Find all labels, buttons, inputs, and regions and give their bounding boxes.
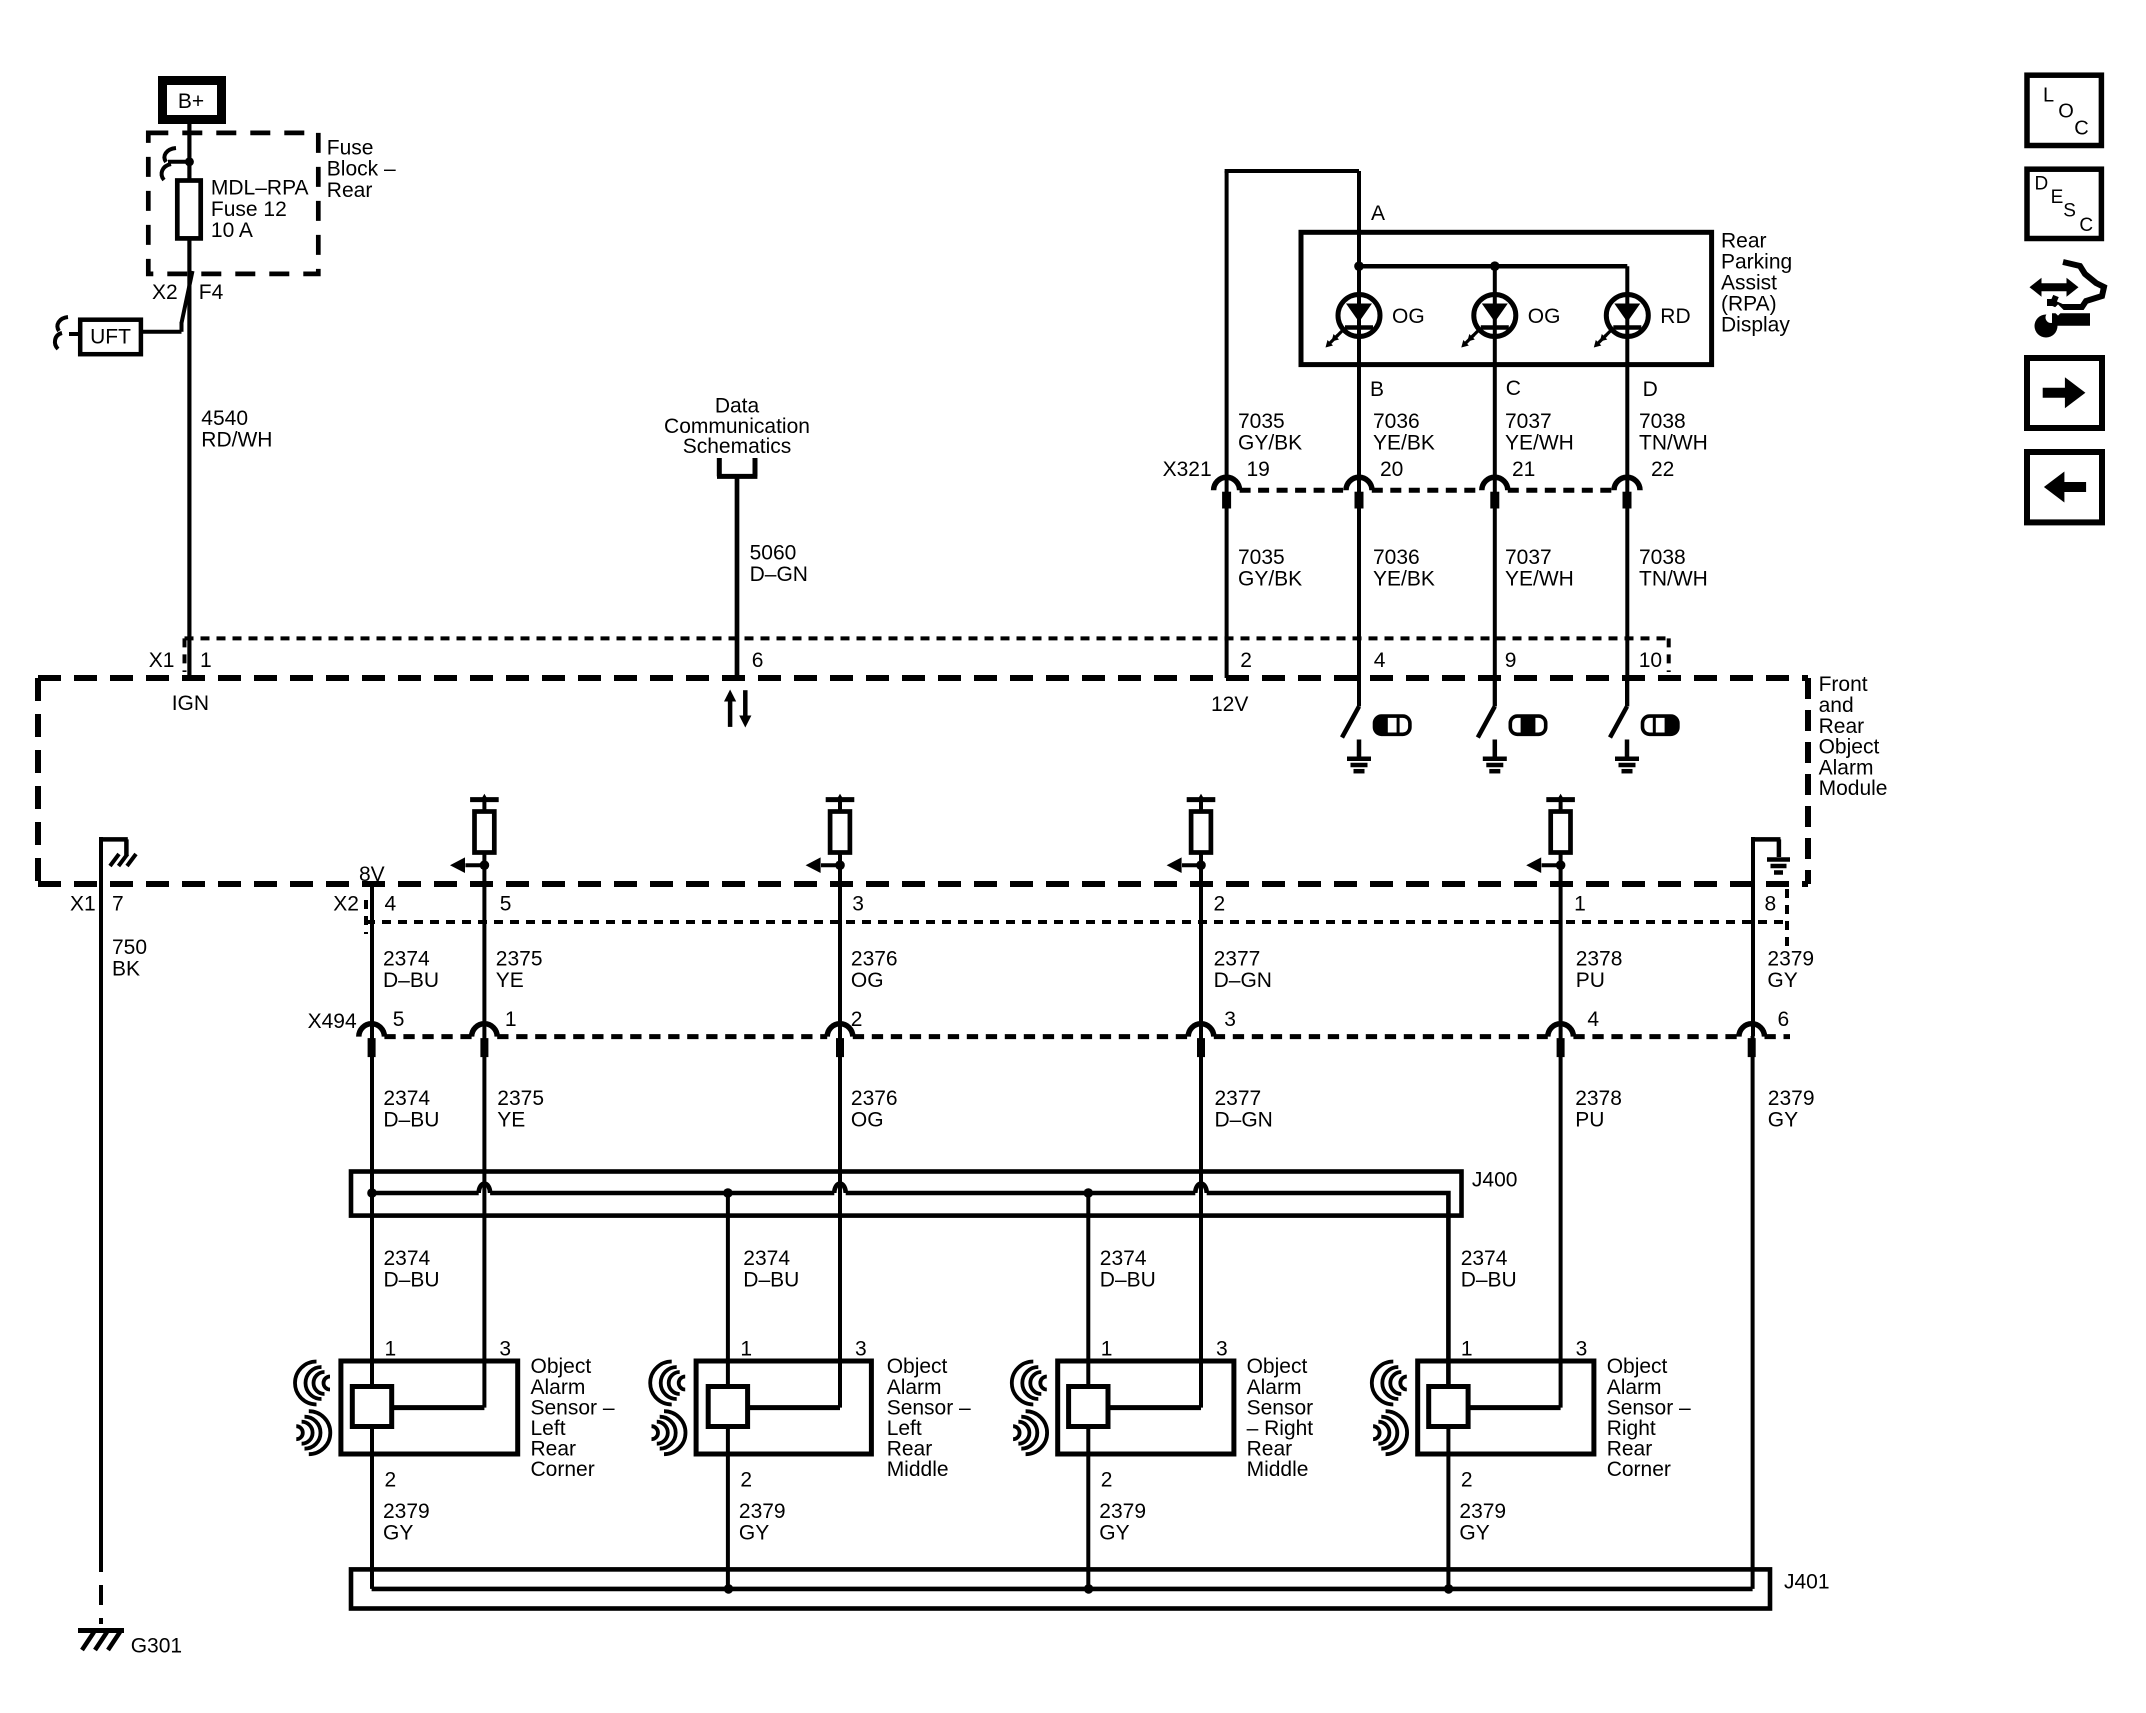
svg-text:C: C bbox=[2074, 117, 2088, 139]
svg-text:B: B bbox=[1370, 378, 1384, 401]
svg-text:X321: X321 bbox=[1163, 458, 1212, 481]
svg-text:D: D bbox=[1643, 378, 1658, 401]
svg-text:6: 6 bbox=[752, 649, 764, 672]
svg-text:J400: J400 bbox=[1472, 1169, 1518, 1192]
svg-text:4: 4 bbox=[1374, 649, 1386, 672]
svg-text:8: 8 bbox=[1765, 892, 1777, 915]
svg-text:7: 7 bbox=[112, 892, 124, 915]
svg-text:F4: F4 bbox=[199, 281, 224, 304]
svg-text:6: 6 bbox=[1778, 1008, 1790, 1031]
svg-text:B+: B+ bbox=[178, 90, 204, 113]
svg-text:L: L bbox=[2043, 84, 2054, 106]
svg-text:2: 2 bbox=[1214, 892, 1226, 915]
svg-text:1: 1 bbox=[1574, 892, 1586, 915]
svg-text:10: 10 bbox=[1639, 649, 1662, 672]
svg-text:3: 3 bbox=[499, 1337, 511, 1360]
svg-text:OG: OG bbox=[1392, 305, 1425, 328]
svg-text:3: 3 bbox=[1224, 1008, 1236, 1031]
svg-text:S: S bbox=[2063, 201, 2076, 222]
svg-text:12V: 12V bbox=[1211, 693, 1248, 716]
svg-text:2: 2 bbox=[385, 1469, 397, 1492]
svg-text:3: 3 bbox=[1576, 1337, 1588, 1360]
svg-text:E: E bbox=[2051, 187, 2064, 208]
svg-text:G301: G301 bbox=[131, 1635, 182, 1658]
svg-text:8V: 8V bbox=[359, 863, 385, 886]
svg-text:OG: OG bbox=[1528, 305, 1561, 328]
svg-text:X494: X494 bbox=[308, 1010, 357, 1033]
svg-text:C: C bbox=[2079, 215, 2093, 236]
svg-text:4: 4 bbox=[1587, 1008, 1599, 1031]
svg-text:1: 1 bbox=[385, 1337, 397, 1360]
svg-text:X2: X2 bbox=[152, 281, 178, 304]
svg-text:3: 3 bbox=[1216, 1337, 1228, 1360]
svg-text:1: 1 bbox=[505, 1008, 517, 1031]
svg-text:UFT: UFT bbox=[90, 326, 131, 349]
svg-text:2: 2 bbox=[740, 1469, 752, 1492]
svg-text:21: 21 bbox=[1512, 458, 1535, 481]
svg-text:O: O bbox=[2058, 101, 2074, 123]
svg-text:C: C bbox=[1506, 377, 1521, 400]
svg-text:RD: RD bbox=[1660, 305, 1690, 328]
svg-text:1: 1 bbox=[1101, 1337, 1113, 1360]
svg-text:4: 4 bbox=[385, 892, 397, 915]
svg-text:2: 2 bbox=[1240, 649, 1252, 672]
svg-text:19: 19 bbox=[1247, 458, 1270, 481]
svg-text:20: 20 bbox=[1380, 458, 1403, 481]
svg-text:IGN: IGN bbox=[172, 692, 209, 715]
svg-text:2: 2 bbox=[1101, 1469, 1113, 1492]
svg-text:1: 1 bbox=[1461, 1337, 1473, 1360]
svg-text:J401: J401 bbox=[1784, 1571, 1830, 1594]
svg-text:9: 9 bbox=[1505, 649, 1517, 672]
svg-text:5: 5 bbox=[393, 1008, 405, 1031]
svg-text:3: 3 bbox=[852, 892, 864, 915]
svg-text:2: 2 bbox=[1461, 1469, 1473, 1492]
svg-text:1: 1 bbox=[200, 649, 212, 672]
svg-text:22: 22 bbox=[1651, 458, 1674, 481]
svg-text:A: A bbox=[1371, 202, 1385, 225]
svg-text:2: 2 bbox=[851, 1008, 863, 1031]
svg-text:ObjectAlarmSensor– RightRearMi: ObjectAlarmSensor– RightRearMiddle bbox=[1247, 1355, 1314, 1481]
svg-text:1: 1 bbox=[740, 1337, 752, 1360]
svg-text:X1: X1 bbox=[70, 892, 96, 915]
svg-text:D: D bbox=[2035, 174, 2049, 195]
svg-text:5: 5 bbox=[500, 892, 512, 915]
svg-text:X2: X2 bbox=[333, 892, 359, 915]
svg-text:3: 3 bbox=[855, 1337, 867, 1360]
svg-text:X1: X1 bbox=[149, 649, 175, 672]
